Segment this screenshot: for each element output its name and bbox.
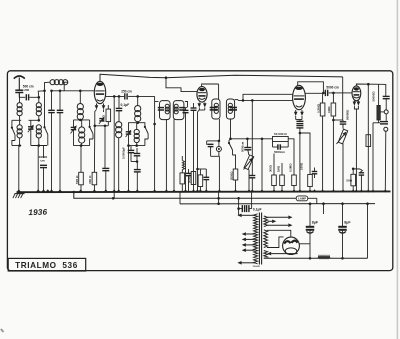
svg-text:1MΩ: 1MΩ	[327, 106, 331, 113]
AVC line	[231, 138, 273, 141]
transformer label	[253, 266, 261, 268]
resistor R13 05M	[320, 93, 325, 192]
capacitor C6 250cm	[121, 90, 139, 100]
rectifier V5	[283, 237, 300, 254]
X1 C14 wires	[207, 141, 220, 192]
terminal J2	[384, 127, 388, 191]
HT rail C	[180, 203, 375, 205]
capacitor C13 cathode	[203, 169, 209, 192]
capacitor C20	[333, 120, 346, 129]
section2 bottom wire	[31, 144, 47, 147]
capacitor C3 30000cm	[39, 146, 48, 193]
wire long x368	[367, 84, 369, 192]
primary tap arrows	[237, 214, 254, 265]
IF1 left cap	[158, 108, 164, 110]
svg-text:2000Ω: 2000Ω	[230, 171, 234, 180]
wire x252.3 down	[251, 99, 254, 175]
capacitor C15	[244, 139, 251, 155]
wire x154.6 down	[153, 96, 156, 192]
border frame	[7, 71, 392, 271]
label 1M v3	[327, 106, 331, 113]
IF1 right coil	[174, 104, 178, 114]
wire to L2 top	[33, 97, 39, 102]
component EL1	[377, 84, 380, 122]
label 05M v3	[316, 103, 320, 113]
switch S1	[11, 120, 15, 145]
switch S6	[228, 119, 236, 158]
capacitor C14	[207, 141, 214, 156]
title text TRIALMO 536	[15, 261, 78, 270]
coil L5 RF transformer	[50, 80, 68, 85]
V4 cathode	[353, 101, 361, 193]
band block top wire	[74, 119, 90, 122]
capacitor C4b	[57, 91, 64, 192]
label 05M	[289, 163, 293, 172]
label 300	[269, 164, 273, 172]
IF2 primary coil	[214, 103, 218, 113]
IF1 left can	[160, 101, 171, 120]
rail C junction dots	[309, 202, 325, 205]
circle X1	[216, 144, 221, 156]
wire L5 left down	[43, 82, 50, 92]
coil L6	[59, 90, 84, 120]
tone pot P2	[337, 129, 348, 192]
section1 bottom wire	[12, 144, 21, 147]
svg-text:0,5MΩ: 0,5MΩ	[289, 163, 293, 172]
wire x251.6 mains	[251, 192, 253, 208]
capacitor C2 series	[19, 94, 33, 100]
coil L1 antenna	[17, 93, 22, 116]
year label 1936	[28, 208, 47, 218]
wire lamp to rail	[308, 198, 317, 204]
osc low junction	[131, 157, 138, 163]
label 50000 P2	[346, 109, 350, 120]
svg-text:0,5MΩ: 0,5MΩ	[316, 103, 320, 113]
wire to V3 grid	[235, 94, 293, 100]
V1 heater stub	[113, 192, 115, 198]
tube V4	[352, 86, 361, 101]
resistor R15 50	[346, 168, 355, 193]
wire R14 ground	[332, 119, 335, 193]
switch S2 on L5 lead	[43, 91, 47, 146]
top rail	[100, 74, 343, 78]
capacitor C24	[312, 168, 318, 179]
svg-text:8µF: 8µF	[344, 220, 351, 224]
ground bus wire	[17, 190, 391, 193]
V1 cathode arrows	[95, 104, 106, 110]
wire below C1	[18, 93, 20, 98]
terminal J1	[384, 110, 388, 121]
coil L8	[135, 96, 141, 121]
svg-text:50Ω: 50Ω	[346, 179, 352, 183]
IF1 right top wire	[185, 102, 188, 108]
capacitor C16	[249, 176, 255, 193]
antenna	[14, 76, 25, 90]
capacitor C19 5000cm	[325, 85, 339, 96]
wire osc left down	[128, 146, 130, 193]
transformer secondary C	[264, 251, 268, 259]
IF2 top stub	[218, 84, 220, 99]
svg-text:50000Ω: 50000Ω	[346, 109, 350, 120]
coil L2	[36, 103, 41, 116]
wire to V3 diode	[238, 99, 293, 102]
label 01uF	[121, 103, 130, 107]
IF2 secondary coil	[228, 103, 232, 113]
svg-text:500 Ω: 500 Ω	[75, 175, 79, 184]
filament loop top	[267, 230, 291, 237]
trimmer CT1	[28, 120, 34, 145]
svg-text:5000cm: 5000cm	[240, 141, 244, 152]
coil L10 osc	[134, 123, 139, 146]
ground symbol	[13, 192, 25, 198]
svg-text:300 Ω: 300 Ω	[88, 175, 92, 184]
wire x262 down	[261, 139, 263, 192]
wire V4 grid	[336, 92, 352, 94]
svg-text:0,1µF: 0,1µF	[121, 103, 130, 107]
svg-text:8µF: 8µF	[312, 220, 319, 224]
wire J branch	[380, 111, 384, 113]
resistor R14 1M	[331, 92, 336, 120]
capacitor C12	[186, 169, 192, 192]
capacitor C9	[134, 162, 141, 193]
wire V1 right lead	[103, 110, 105, 113]
wire L5 right to grid	[52, 82, 95, 91]
svg-text:5000cm: 5000cm	[274, 150, 285, 154]
svg-text:250 cm: 250 cm	[121, 90, 132, 94]
wire L8 to osc	[137, 122, 139, 123]
svg-text:100Ω: 100Ω	[299, 162, 303, 170]
IF2 right can	[226, 99, 234, 119]
resistor R6	[180, 170, 185, 193]
secondary C arrow	[267, 252, 298, 256]
rail branch x166	[165, 76, 198, 91]
capacitor C4a	[48, 90, 55, 193]
coil L3 band	[17, 120, 22, 145]
wire L1 to section1	[19, 116, 21, 121]
capacitor C18 pair	[296, 116, 310, 192]
volume pot P1	[244, 155, 254, 192]
capacitor C11	[191, 103, 197, 192]
wire V1 anode	[106, 95, 125, 97]
svg-text:TRIALMO 536: TRIALMO 536	[15, 261, 78, 270]
resistor R7	[188, 172, 196, 193]
switch S4 osc	[144, 126, 148, 146]
coil L4 band	[36, 125, 41, 146]
wire rectifier output	[299, 236, 310, 244]
IF1 left coil	[165, 104, 169, 114]
wire R9 to R12	[288, 139, 294, 168]
resistor R2 300ohm	[88, 126, 97, 192]
capacitor C22 out	[372, 91, 390, 110]
tube V1	[94, 81, 105, 103]
svg-text:50 000 Ω: 50 000 Ω	[274, 132, 287, 136]
label 5000cm P1	[240, 141, 244, 152]
junction wire y125.8	[95, 125, 109, 168]
rail C drop from bus	[179, 192, 181, 204]
capacitor C8 padding	[128, 146, 135, 157]
wire V3 plate	[305, 92, 324, 95]
electrolytic C26 8uF	[306, 203, 319, 260]
wire V3 top cap	[298, 82, 324, 93]
trimmer CT4	[126, 130, 132, 146]
capacitor C7 bypass	[102, 168, 109, 192]
capacitor C21	[353, 169, 364, 192]
wire V4 top cap	[356, 83, 385, 96]
resistor R11	[280, 163, 285, 192]
switch S3	[89, 120, 94, 146]
capacitor C1 antenna 500cm	[15, 84, 33, 92]
svg-text:cm: cm	[40, 159, 45, 163]
transformer secondary A	[264, 216, 268, 227]
wire V1 left lead	[94, 110, 97, 128]
coil L9	[116, 122, 122, 193]
IF2 left can	[212, 99, 220, 119]
svg-text:50000Ω: 50000Ω	[372, 91, 376, 102]
resistor R12	[292, 168, 297, 192]
svg-text:110•220: 110•220	[253, 266, 261, 268]
resistor R8 2000	[230, 158, 238, 192]
section2 top wire	[29, 119, 41, 122]
bus junction marks	[17, 189, 388, 192]
resistor R17 100	[299, 142, 312, 193]
wire anode rail right	[138, 95, 155, 97]
capacitor C10	[183, 107, 189, 192]
svg-text:300Ω: 300Ω	[269, 164, 273, 172]
resistor R3	[102, 105, 111, 126]
IF1 right cap	[179, 108, 185, 110]
tube V2	[197, 87, 207, 103]
resistor R1 500ohm	[75, 146, 83, 193]
wire x367.5 up	[366, 202, 369, 258]
IF2 primary bottom	[218, 119, 221, 142]
dial lamp box	[296, 196, 308, 201]
svg-text:0,0005µF: 0,0005µF	[121, 147, 125, 159]
title box	[8, 258, 86, 271]
choke on HT wire	[318, 254, 330, 258]
svg-text:200: 200	[24, 88, 29, 92]
osc block frame	[129, 121, 145, 131]
svg-text:LAMP: LAMP	[298, 197, 306, 201]
resistor R5 zig	[182, 156, 184, 170]
electrolytic C27 8uF	[338, 202, 351, 259]
IF2 right cap	[230, 108, 237, 110]
bottom HT wire	[264, 257, 368, 259]
band block bottom wire	[74, 144, 90, 147]
trimmer CT3	[99, 117, 105, 124]
resistor R9 50000 box	[273, 132, 289, 142]
transformer secondary B	[264, 230, 268, 248]
label 00005uF	[121, 147, 125, 159]
capacitor C5	[116, 95, 123, 122]
wire section2 to bus	[37, 146, 39, 193]
IF2 left cap	[210, 108, 217, 110]
IF1 drops	[166, 119, 174, 192]
capacitor C17 parallel	[273, 142, 289, 154]
V2 cathode arrows	[198, 103, 207, 108]
capacitor C8b	[134, 146, 141, 162]
capacitor C23	[373, 122, 388, 193]
wire section1 to bus	[18, 146, 20, 193]
IF1 left top wire	[155, 101, 159, 103]
wire x323 down	[323, 204, 325, 214]
svg-text:1MΩ: 1MΩ	[277, 165, 281, 172]
rail down x342.7	[342, 77, 344, 120]
osc mid wire	[127, 144, 145, 147]
transformer core	[259, 213, 261, 265]
wire L2 to section2	[38, 116, 40, 121]
wire x114	[113, 95, 116, 192]
tube V3	[293, 85, 306, 109]
resistor R10	[272, 154, 277, 193]
svg-text:5000Ω: 5000Ω	[188, 174, 192, 183]
svg-text:1936: 1936	[28, 208, 47, 218]
svg-text:0,1µF: 0,1µF	[253, 207, 262, 211]
V3 cathode arrows	[294, 110, 304, 116]
grid wire left bend	[38, 91, 45, 99]
wire L6 bottom	[79, 119, 81, 121]
wire V2 down	[196, 108, 205, 193]
wire C25 drop	[237, 197, 240, 215]
svg-text:5000 cm: 5000 cm	[326, 85, 339, 89]
heater rail	[73, 191, 297, 200]
label 1M	[277, 165, 281, 172]
svg-text:____: ____	[319, 254, 326, 256]
coil L7	[79, 120, 85, 146]
section1 top wire	[12, 119, 21, 121]
wire V1 top cap	[99, 74, 101, 81]
resistor R8b cathode	[198, 169, 207, 192]
resistor R16 screen	[366, 135, 371, 147]
capacitor C25 01uF	[239, 205, 262, 212]
secondary A tap arrows	[268, 216, 293, 228]
trimmer CT2	[71, 120, 77, 146]
IF1 right can	[173, 101, 184, 120]
wire V2 top cap	[202, 84, 219, 87]
wire x218.6 heater drop	[217, 192, 220, 205]
transformer primary winding	[254, 214, 258, 264]
filament loop bottom	[267, 237, 284, 248]
